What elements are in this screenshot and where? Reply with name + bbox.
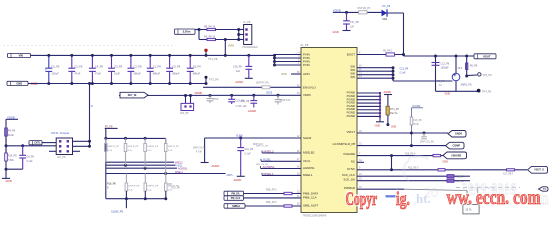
svg-text:VSHARE: VSHARE — [451, 154, 461, 157]
svg-text:4.7uF: 4.7uF — [236, 105, 243, 108]
wire jumper right stubs — [73, 140, 90, 142]
svg-text:R9R_P8 0: R9R_P8 0 — [266, 202, 277, 204]
resistor R6 — [207, 28, 216, 30]
test point TP2 on gnd rail — [205, 77, 207, 83]
svg-text:+: + — [45, 68, 47, 72]
svg-text:C13_P8: C13_P8 — [400, 68, 409, 71]
resistor R8 on boot — [386, 53, 395, 56]
svg-text:KEY_NI: KEY_NI — [128, 94, 137, 97]
svg-text:VSHARE: VSHARE — [343, 152, 355, 156]
label R16 — [107, 183, 116, 186]
wire ladder row2 line — [106, 198, 166, 200]
svg-text:1uF: 1uF — [236, 70, 241, 73]
capacitor C12 branch — [434, 55, 437, 58]
wire SW to smr — [393, 80, 453, 82]
capacitor C8 — [22, 146, 24, 156]
svg-text:V1OL: V1OL — [263, 158, 271, 162]
capacitor C17 — [346, 12, 348, 20]
wire sense branch — [465, 55, 468, 58]
wire AVIN drop to rail — [224, 40, 226, 56]
wire PGND vertical bus — [379, 93, 381, 122]
svg-text:20: 20 — [424, 186, 438, 201]
resistor ladder r2c2 DNP — [144, 183, 147, 191]
svg-text:DNP R_P8: DNP R_P8 — [168, 186, 179, 188]
resistor ladder r2c3 DNP — [165, 183, 168, 191]
svg-text:GND: GND — [333, 30, 339, 34]
net label SLEW tail — [111, 210, 124, 214]
svg-text:SYNC: SYNC — [347, 167, 355, 171]
wire V5FLT — [357, 132, 448, 134]
wire VIN rail — [31, 54, 275, 56]
svg-text:SLEW: SLEW — [303, 136, 311, 140]
svg-text:DNP R_P8: DNP R_P8 — [147, 146, 158, 148]
wire GCOMP — [357, 145, 446, 147]
svg-text:PGND: PGND — [347, 114, 355, 118]
test point TP4 — [477, 89, 481, 93]
svg-text:7.50k: 7.50k — [8, 159, 15, 162]
wire to R6 — [195, 29, 207, 31]
wire scl dash right — [454, 175, 470, 177]
svg-text:C10_P8: C10_P8 — [241, 100, 250, 103]
pin numbers left — [298, 51, 300, 54]
red label VDDB near jumper — [195, 91, 202, 95]
svg-text:4.7uF: 4.7uF — [196, 151, 202, 153]
wire AVIN stub — [291, 73, 301, 75]
svg-text:ww. eccn. com: ww. eccn. com — [447, 186, 542, 209]
svg-text:SCK_DA: SCK_DA — [343, 178, 355, 182]
net label PMB_DATA pill — [224, 191, 244, 196]
svg-text:DNP C8_P8: DNP C8_P8 — [256, 164, 269, 166]
svg-text:JP1_P8: JP1_P8 — [57, 156, 66, 159]
svg-text:DNP R2_P8: DNP R2_P8 — [358, 8, 371, 10]
wire BOOT — [357, 54, 404, 56]
svg-text:DNP C9_P8: DNP C9_P8 — [193, 148, 206, 150]
svg-text:R8_P8 0: R8_P8 0 — [383, 51, 393, 53]
current loop SMR1 — [452, 73, 460, 81]
net flag VDD5B — [120, 92, 148, 98]
wire PGND stubs — [357, 92, 380, 94]
svg-text:0.1uF: 0.1uF — [400, 72, 407, 75]
capacitor C3 input bank — [111, 55, 113, 68]
svg-text:R15_P8: R15_P8 — [172, 187, 181, 189]
label R15 dnp — [167, 184, 172, 186]
svg-text:R10_P8: R10_P8 — [456, 177, 465, 179]
svg-text:DNP R_P8: DNP R_P8 — [168, 146, 179, 148]
wire CNTL to jumper — [42, 142, 56, 144]
svg-text:75.0k: 75.0k — [413, 124, 419, 126]
wire PWRGD — [357, 188, 404, 190]
svg-text:VDD5: VDD5 — [303, 93, 311, 97]
wire ladder top row — [106, 137, 166, 139]
svg-text:AGND: AGND — [248, 109, 256, 113]
svg-text:C11_P8: C11_P8 — [245, 148, 254, 151]
bus net labels — [175, 162, 184, 165]
svg-text:CNTL: CNTL — [227, 174, 234, 177]
net label VDDB left — [7, 115, 15, 119]
svg-text:V1OL: V1OL — [176, 165, 183, 168]
wire R5 to header — [215, 39, 239, 41]
svg-text:MSEL1: MSEL1 — [175, 171, 184, 174]
resistor R4 — [5, 128, 8, 136]
ghost watermark outline — [469, 180, 518, 198]
wire diode to boot node — [387, 12, 404, 14]
wire R6 to header — [215, 29, 239, 31]
wire jumper gnd drop — [89, 84, 91, 147]
bottom measure box — [466, 191, 468, 205]
diode D1 — [382, 10, 388, 17]
wire VSHARE — [357, 155, 443, 157]
jumper JP2 — [185, 96, 187, 104]
net pill vout_s right — [528, 166, 548, 173]
wire VDD5 net to IC — [119, 94, 301, 96]
wire node to jumper — [6, 145, 56, 147]
svg-text:VOUT_S: VOUT_S — [534, 169, 544, 172]
net label VDDB text — [333, 9, 341, 13]
svg-text:TP4_P8: TP4_P8 — [482, 91, 492, 94]
wire slew left branch — [204, 138, 206, 163]
net label SMB pill — [224, 204, 245, 209]
net pill vshare — [443, 152, 467, 159]
svg-text:DNP: DNP — [214, 99, 219, 101]
thermistor RT1 right — [387, 95, 389, 107]
svg-text:R5_P8 10: R5_P8 10 — [204, 35, 216, 38]
connector J1 header — [244, 25, 252, 45]
capacitor C16 avin — [247, 54, 250, 57]
svg-text:DNP C7_P8: DNP C7_P8 — [256, 145, 269, 147]
svg-text:GCOMP/SLR_P8: GCOMP/SLR_P8 — [333, 142, 356, 146]
resistor ladder r1c3 DNP — [144, 144, 147, 152]
faint sheet border top-left — [3, 45, 174, 47]
svg-text:DNP R7_P8: DNP R7_P8 — [256, 82, 269, 84]
resistor R5 out — [437, 80, 445, 83]
wire ladder left vertical — [105, 128, 107, 198]
svg-text:V1OL: V1OL — [303, 159, 311, 163]
resistor DNP inline vddb — [359, 11, 368, 14]
label AVIN net — [228, 44, 234, 48]
svg-text:1uF: 1uF — [243, 105, 248, 108]
net label GND input — [7, 81, 28, 85]
svg-text:M24: M24 — [383, 18, 388, 21]
svg-text:GND: GND — [391, 126, 396, 128]
wire smb alrt — [245, 205, 301, 207]
svg-text:NC: NC — [351, 159, 355, 163]
capacitor DNP gray on vdd5 right — [277, 94, 280, 97]
svg-text:TPS56C230RSMR/P8: TPS56C230RSMR/P8 — [303, 215, 327, 218]
connector JP1 jumper block — [56, 138, 72, 155]
agnd below slew branch — [201, 162, 209, 164]
i2c resistors cluster — [447, 175, 454, 178]
svg-text:MSEL1: MSEL1 — [303, 173, 313, 177]
svg-text:C12_P8: C12_P8 — [441, 62, 450, 65]
wire r1 bottoms to bus — [125, 152, 127, 166]
capacitor C1 input bank — [149, 55, 151, 68]
slope net label — [412, 105, 420, 108]
svg-text:C18_P8: C18_P8 — [413, 120, 422, 122]
svg-text:D1_P8: D1_P8 — [383, 5, 391, 8]
wire NC stub — [357, 161, 364, 163]
svg-text:MSEL1: MSEL1 — [264, 172, 274, 176]
svg-text:TP3_P8: TP3_P8 — [483, 74, 493, 77]
svg-text:90.9k: 90.9k — [8, 134, 15, 137]
agnd symbol below C16 — [245, 77, 253, 79]
net pill V5FLT right — [448, 131, 466, 138]
svg-text:MSELB2: MSELB2 — [303, 151, 315, 155]
resistor ladder r1c2 DNP — [124, 144, 127, 152]
capacitor DNP C9 on slew — [193, 148, 206, 150]
wire header stubs — [239, 29, 244, 31]
agnd mark right — [384, 94, 392, 96]
svg-text:0.1uF: 0.1uF — [27, 160, 34, 163]
net label 3V3 input pill — [175, 29, 196, 34]
svg-text:VDD5: VDD5 — [266, 93, 273, 95]
svg-text:Copyr: Copyr — [346, 189, 378, 209]
svg-text:R5_P8: R5_P8 — [437, 80, 445, 83]
svg-text:PMB_CLA: PMB_CLA — [303, 196, 317, 200]
resistor R14 — [5, 136, 7, 153]
wire pmb data — [244, 193, 302, 195]
svg-text:PM_CLK: PM_CLK — [231, 198, 241, 200]
resistor ladder r1c4 DNP — [164, 144, 167, 152]
wire smr top — [455, 56, 457, 73]
svg-text:EN/UVLO: EN/UVLO — [303, 85, 316, 89]
watermark red eccn right — [447, 186, 542, 209]
wire ladder bus lines — [106, 161, 174, 163]
net label PMB_CLK pill — [224, 196, 244, 200]
resistor ladder r2c1 DNP — [125, 183, 128, 191]
watermark red copyright left — [346, 189, 378, 209]
wire vout sense long — [357, 169, 527, 171]
svg-text:DNP C16_P8: DNP C16_P8 — [420, 142, 434, 144]
wire out gnd — [436, 90, 478, 92]
svg-text:RT1_P8: RT1_P8 — [390, 109, 399, 111]
capacitor C8 input bank — [189, 55, 191, 68]
svg-text:BOOT: BOOT — [347, 52, 355, 56]
svg-text:R6_P8 10: R6_P8 10 — [204, 25, 216, 28]
wire SLEW net to IC — [205, 137, 301, 139]
net label MSEL1 stub — [262, 174, 301, 176]
wire PVIN vertical bus — [274, 55, 276, 66]
resistor ladder r1c1 DNP — [105, 144, 108, 152]
wire r1 tops — [105, 138, 107, 143]
net pill right edge — [539, 187, 549, 191]
svg-text:MSEL2: MSEL2 — [175, 162, 184, 165]
svg-text:DNP R_P8: DNP R_P8 — [128, 146, 139, 148]
net label MSEL2 stub — [262, 152, 301, 154]
ground below C17 — [343, 30, 351, 32]
svg-text:SMR1_P8: SMR1_P8 — [461, 83, 473, 86]
pin numbers right — [359, 51, 361, 54]
wire to R5 — [199, 39, 207, 41]
wire SCL — [357, 175, 447, 177]
svg-text:PMB_DATA: PMB_DATA — [303, 191, 318, 195]
svg-text:COMP: COMP — [453, 145, 461, 148]
net pill gcomp — [446, 142, 465, 149]
svg-text:DNP R_P8: DNP R_P8 — [108, 146, 119, 148]
op-amp U1 main regulator IC — [301, 48, 357, 213]
svg-text:PVIN: PVIN — [303, 63, 310, 67]
net label CNTL pill — [29, 141, 42, 145]
svg-text:C17_P8: C17_P8 — [350, 21, 359, 24]
capacitor C6 input bank — [48, 55, 50, 68]
net label V1OL stub — [261, 160, 301, 162]
svg-text:26.7k: 26.7k — [466, 209, 473, 212]
svg-text:SCK_CLK: SCK_CLK — [342, 173, 355, 177]
wire GND rail — [28, 83, 207, 85]
svg-text:GND: GND — [443, 160, 449, 163]
wire branch down — [198, 30, 200, 40]
svg-text:GND5: GND5 — [455, 133, 463, 136]
capacitor C19 on vdd5 — [230, 94, 233, 97]
svg-text:JP2_P8: JP2_P8 — [180, 112, 189, 115]
svg-text:R9B_P8 0: R9B_P8 0 — [266, 190, 277, 192]
wire gnd join — [6, 168, 23, 170]
wire SDA — [357, 180, 447, 182]
svg-text:VDDB: VDDB — [7, 115, 15, 119]
svg-text:DNP C14: DNP C14 — [281, 100, 291, 102]
test point TP1 red — [204, 49, 207, 52]
wire SW bus — [392, 68, 394, 81]
capacitor C13 label — [400, 68, 409, 71]
wire divider vertical — [5, 119, 7, 153]
svg-text:SMB_ALRT: SMB_ALRT — [303, 204, 318, 208]
label CNTL Jumper — [51, 131, 70, 135]
capacitor C4 input bank — [91, 55, 93, 68]
net label VIN — [8, 53, 31, 57]
wire SW stubs — [357, 67, 393, 69]
svg-text:R4_P8: R4_P8 — [8, 130, 16, 133]
wire header vertical bus — [238, 30, 240, 40]
svg-text:MSEL2: MSEL2 — [264, 149, 274, 153]
wire pmb clk — [244, 197, 302, 199]
wire smr bottom — [455, 81, 457, 92]
net label AGND5L stub — [261, 168, 302, 170]
test point TP3 — [478, 73, 481, 76]
svg-text:C16_P8: C16_P8 — [233, 66, 242, 69]
svg-text:AGND5L: AGND5L — [303, 166, 315, 170]
svg-text:ig.: ig. — [396, 189, 410, 210]
svg-text:(⁀: (⁀ — [402, 155, 428, 181]
ground divider — [2, 177, 10, 179]
svg-text:49.9: 49.9 — [458, 67, 463, 70]
svg-text:AVIN: AVIN — [303, 72, 310, 76]
svg-text:R6_P8: R6_P8 — [470, 65, 478, 68]
wire tp3 — [465, 75, 468, 78]
svg-text:CNTL: CNTL — [34, 142, 41, 145]
capacitor C5 input bank — [71, 55, 73, 68]
svg-text:R14_P8: R14_P8 — [8, 155, 17, 158]
capacitor C11 on slew — [239, 137, 242, 140]
wire PVIN stubs — [275, 54, 302, 56]
capacitor C9 input bank — [169, 55, 171, 68]
net label RT_P8 ladder top — [105, 126, 113, 129]
svg-text:R16_P8: R16_P8 — [107, 183, 116, 186]
ground pgnd — [376, 121, 384, 123]
svg-text:SW: SW — [350, 75, 355, 79]
wire ladder right col — [165, 138, 167, 143]
svg-text:GND: GND — [6, 179, 12, 183]
ghost numbers outline — [462, 182, 517, 194]
resistor R5 — [207, 38, 216, 40]
svg-text:AGND5L: AGND5L — [178, 168, 188, 171]
svg-text:AVIN: AVIN — [281, 73, 287, 76]
svg-text:1uF: 1uF — [350, 26, 355, 29]
svg-text:V5FLT: V5FLT — [347, 130, 356, 134]
capacitor C10 on vdd5 — [252, 94, 255, 97]
wire VDDB to diode — [347, 11, 382, 13]
wire ladder tail — [125, 199, 127, 209]
svg-text:CNTL Jumper: CNTL Jumper — [51, 131, 70, 135]
svg-text:1500pF: 1500pF — [441, 67, 450, 70]
svg-text:DNP R_P8: DNP R_P8 — [148, 186, 159, 188]
capacitor small DNP on vdd5 — [209, 94, 212, 97]
capacitor C2 input bank — [130, 55, 132, 68]
svg-text:C8_P8: C8_P8 — [27, 155, 35, 158]
svg-text:DNP R_P8: DNP R_P8 — [129, 186, 140, 188]
wire EN/UVLO to IC — [203, 86, 301, 88]
watermark blue dash — [386, 195, 396, 197]
net label VOUT pill — [474, 54, 496, 59]
svg-text:0.1uF: 0.1uF — [245, 153, 252, 156]
wire vout main — [404, 55, 476, 57]
